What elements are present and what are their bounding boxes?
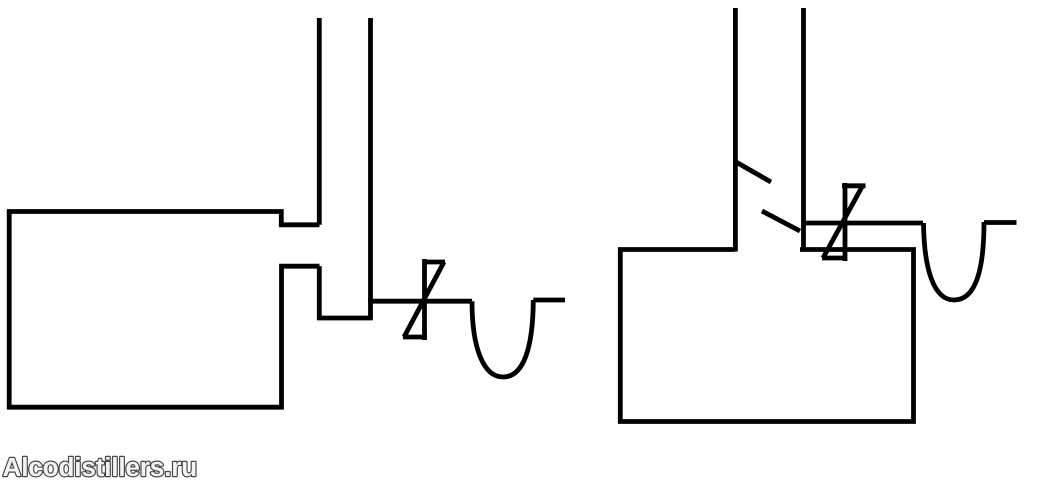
svg-text:Alcodistillers.ru: Alcodistillers.ru [3, 452, 198, 482]
